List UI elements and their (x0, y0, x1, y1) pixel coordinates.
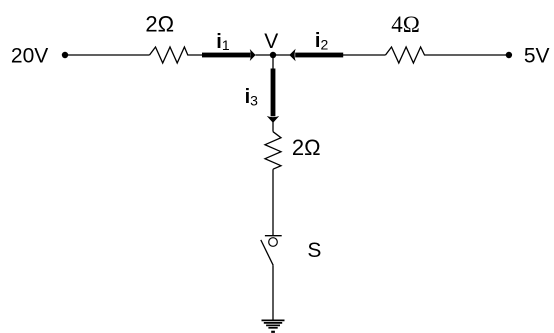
svg-text:S: S (307, 239, 321, 262)
svg-text:5V: 5V (524, 45, 550, 68)
svg-text:2Ω: 2Ω (292, 135, 321, 160)
svg-text:20V: 20V (11, 45, 48, 68)
svg-text:2Ω: 2Ω (145, 12, 174, 37)
svg-text:4Ω: 4Ω (391, 12, 420, 37)
svg-text:V: V (264, 30, 278, 53)
